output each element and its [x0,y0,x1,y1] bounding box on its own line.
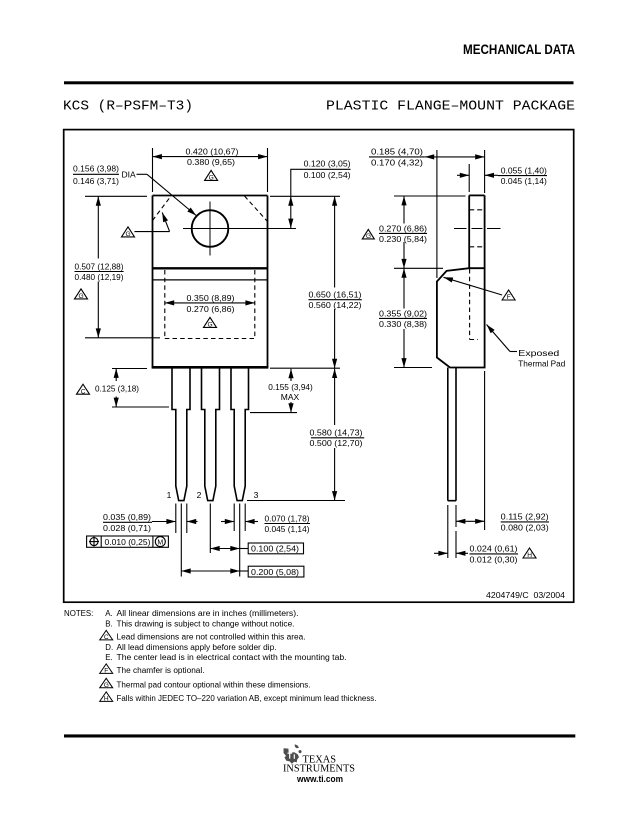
note G flag [100,678,113,688]
dimension 0.156/0.146 DIA hole [73,164,196,216]
svg-text:0.070 (1,78): 0.070 (1,78) [265,513,310,523]
svg-text:0.055 (1,40): 0.055 (1,40) [501,165,547,175]
thermal pad dashed contour [165,270,255,339]
dimension 0.120/0.100 hole center [291,159,351,228]
note G flag under 0.420 [205,170,218,181]
svg-text:B.: B. [105,620,112,629]
lead 1 [172,368,190,501]
svg-text:G: G [366,233,371,240]
dimension 0.115/0.080 lead offset [456,371,549,533]
svg-text:M: M [157,539,163,546]
svg-text:C: C [104,634,109,641]
svg-text:0.330 (8,38): 0.330 (8,38) [379,319,427,329]
svg-text:G: G [208,322,213,329]
svg-text:E.: E. [105,653,112,662]
svg-text:0.355 (9,02): 0.355 (9,02) [379,308,427,318]
svg-text:0.580 (14,73): 0.580 (14,73) [310,427,363,437]
svg-text:H: H [527,552,532,559]
svg-text:0.507 (12,88): 0.507 (12,88) [75,261,124,271]
svg-text:DIA: DIA [122,170,137,180]
dimension 0.420/0.380 top width [153,147,268,192]
optional chamfer dashed corner right [245,196,268,222]
svg-text:All lead dimensions apply befo: All lead dimensions apply before solder … [117,643,277,652]
svg-text:Thermal pad contour optional w: Thermal pad contour optional within thes… [117,681,311,690]
hole vertical centerline [209,202,211,256]
front view package body outline [152,196,269,368]
svg-text:4204749/C 03/2004: 4204749/C 03/2004 [486,590,565,600]
svg-text:0.270 (6,86): 0.270 (6,86) [187,304,235,314]
svg-text:G: G [126,231,131,238]
svg-text:KCS (R–PSFM–T3): KCS (R–PSFM–T3) [63,99,193,115]
svg-text:The chamfer is optional.: The chamfer is optional. [117,666,205,675]
dimension 0.270/0.230 tab height [379,196,466,268]
dimension 0.035/0.028 lead1 width [103,504,198,534]
side view tab [469,195,484,367]
dimension 0.507/0.480 left height [75,196,161,337]
lead 3 [231,368,249,501]
svg-text:MECHANICAL DATA: MECHANICAL DATA [463,41,575,57]
svg-text:0.200 (5,08): 0.200 (5,08) [251,567,299,577]
svg-text:Exposed: Exposed [518,348,559,358]
svg-text:NOTES:: NOTES: [64,609,93,618]
svg-text:Lead dimensions are not contro: Lead dimensions are not controlled withi… [117,633,306,642]
side hole centerline [454,228,501,230]
svg-text:0.156 (3,98): 0.156 (3,98) [73,164,119,174]
svg-text:0.115 (2,92): 0.115 (2,92) [501,511,549,521]
dimension 0.155 MAX [250,369,313,413]
svg-text:0.170 (4,32): 0.170 (4,32) [371,158,423,168]
svg-text:C: C [81,388,86,395]
svg-text:3: 3 [254,490,259,500]
lead 2 [202,368,220,501]
svg-text:0.125 (3,18): 0.125 (3,18) [95,383,139,393]
svg-text:This drawing is subject to cha: This drawing is subject to change withou… [117,620,295,629]
exposed pad hidden dashed line [470,269,478,340]
TI logo texas map [283,744,301,763]
svg-text:0.155 (3,94): 0.155 (3,94) [268,382,313,392]
dimension 0.355/0.330 body height [379,268,432,367]
svg-text:A.: A. [105,609,112,618]
svg-text:Falls within JEDEC TO–220 vari: Falls within JEDEC TO–220 variation AB, … [117,694,377,703]
svg-text:0.146 (3,71): 0.146 (3,71) [73,176,119,186]
note F flag with leader to chamfer [444,277,516,301]
svg-text:H: H [104,696,109,703]
svg-text:0.380 (9,65): 0.380 (9,65) [187,157,235,167]
svg-text:G: G [79,293,84,300]
svg-text:Thermal Pad: Thermal Pad [518,358,565,368]
note F flag [100,664,113,674]
svg-text:0.420 (10,67): 0.420 (10,67) [186,147,239,157]
svg-text:0.010 (0,25): 0.010 (0,25) [105,537,151,547]
optional chamfer dashed corner left [153,196,172,221]
side view molded body outline [437,268,486,367]
svg-text:0.012 (0,30): 0.012 (0,30) [470,554,518,564]
note G flag at chamfer with leader [122,213,170,239]
dimension 0.580/0.500 [310,369,365,501]
note G flag left of 0.270 [362,229,374,240]
hidden hole edge dashes [469,209,484,211]
svg-text:G: G [104,682,109,689]
svg-text:0.350 (8,89): 0.350 (8,89) [187,293,235,303]
extension line lead tips right [247,500,345,502]
svg-text:0.045 (1,14): 0.045 (1,14) [501,176,547,186]
svg-text:0.270 (6,86): 0.270 (6,86) [379,223,427,233]
dimension 0.024/0.012 lead thickness with note H flag [434,505,536,564]
feature control frame 0.010 (0,25) M [87,536,169,547]
hole horizontal centerline [183,228,296,230]
note G flag left of 0.507 [75,289,88,300]
extension line body bottom right [270,367,340,369]
note G flag under 0.350 [204,317,217,328]
svg-text:INSTRUMENTS: INSTRUMENTS [283,764,355,775]
svg-text:0.650 (16,51): 0.650 (16,51) [309,289,362,299]
svg-text:0.028 (0,71): 0.028 (0,71) [103,523,151,533]
mounting hole [192,210,229,247]
svg-text:The center lead is in electric: The center lead is in electrical contact… [117,653,347,662]
svg-text:0.120 (3,05): 0.120 (3,05) [304,159,351,169]
svg-text:All linear dimensions are in i: All linear dimensions are in inches (mil… [117,609,299,618]
dimension 0.350/0.270 pad width [165,293,255,314]
svg-text:0.560 (14,22): 0.560 (14,22) [309,300,362,310]
svg-text:0.100 (2,54): 0.100 (2,54) [251,544,299,554]
svg-text:D.: D. [105,643,113,652]
note C flag [100,630,113,640]
front view body step line [153,279,268,281]
exposed thermal pad callout [487,325,566,369]
note H flag [100,692,113,702]
svg-text:www.ti.com: www.ti.com [296,774,343,785]
svg-text:0.035 (0,89): 0.035 (0,89) [103,512,151,522]
side view lead [448,368,456,501]
svg-text:0.500 (12,70): 0.500 (12,70) [310,438,363,448]
notes block [64,609,377,703]
dimension 0.185/0.170 [369,147,485,278]
TI logo ti letters [288,752,295,759]
svg-text:0.185 (4,70): 0.185 (4,70) [371,147,423,157]
svg-text:PLASTIC FLANGE–MOUNT PACKAGE: PLASTIC FLANGE–MOUNT PACKAGE [326,99,575,115]
extension line top right [270,195,340,197]
dimension 0.200 (5,08) lead span [181,504,304,578]
svg-text:1: 1 [167,490,172,500]
svg-text:0.045 (1,14): 0.045 (1,14) [265,524,310,534]
svg-text:F: F [507,294,511,301]
dimension 0.125 with note C flag [77,369,170,408]
header rule [64,81,574,84]
svg-text:0.230 (5,84): 0.230 (5,84) [379,234,427,244]
svg-text:0.024 (0,61): 0.024 (0,61) [470,543,518,553]
svg-text:0.080 (2,03): 0.080 (2,03) [501,523,549,533]
dimension 0.055/0.045 tab thickness [457,164,547,192]
dimension 0.100 (2,54) lead pitch [210,504,303,577]
svg-text:2: 2 [197,490,202,500]
front view tab/body boundary line [153,267,268,269]
dimension 0.070/0.045 lead3 width [221,504,310,535]
svg-text:MAX: MAX [281,392,300,402]
dimension 0.650/0.560 [309,196,362,368]
footer rule [64,734,575,737]
drawing border frame [64,130,574,603]
svg-text:G: G [209,175,214,182]
svg-text:0.480 (12,19): 0.480 (12,19) [75,272,124,282]
svg-text:F: F [104,668,108,675]
svg-text:0.100 (2,54): 0.100 (2,54) [304,170,351,180]
